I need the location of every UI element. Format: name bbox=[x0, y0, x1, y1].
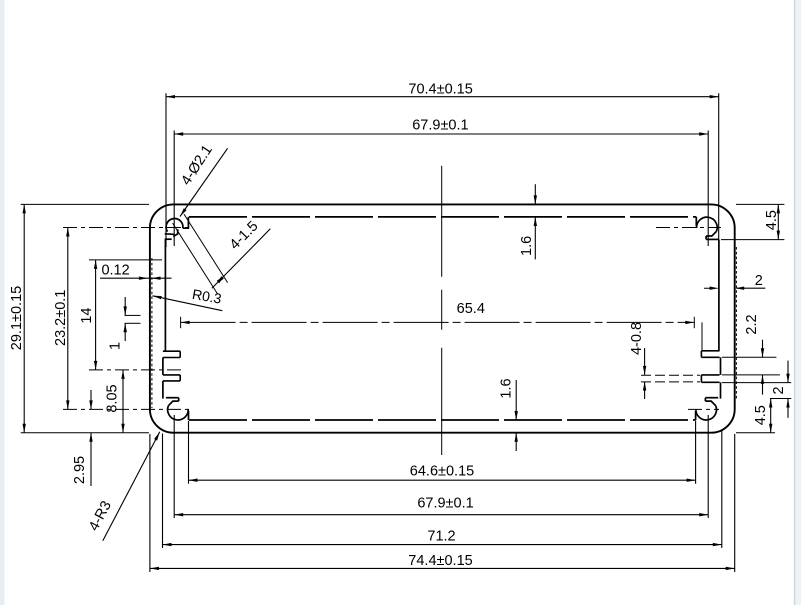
inner top surface line bbox=[189, 216, 696, 218]
dimension 23.2±0.1 (left) bbox=[67, 228, 69, 410]
dimension 4-0.8 (fin thickness) bbox=[644, 348, 646, 375]
inner right wall (upper) bbox=[718, 240, 720, 351]
svg-text:2: 2 bbox=[771, 386, 787, 394]
dimension 2 (right wall) bbox=[704, 287, 718, 289]
dimension 65.4 (inner width) bbox=[181, 321, 695, 323]
leader 4-dia2.1 (screw bore) bbox=[180, 148, 228, 216]
svg-text:23.2±0.1: 23.2±0.1 bbox=[53, 290, 69, 346]
inner left wall (fin region) bbox=[162, 358, 164, 375]
boss centerline bottom-left bbox=[63, 408, 192, 410]
leader R0.3 (serration radius) bbox=[153, 296, 223, 311]
svg-text:71.2: 71.2 bbox=[427, 529, 455, 545]
right page-edge line bbox=[794, 0, 796, 605]
right upper PCB fin bbox=[701, 350, 719, 352]
svg-text:65.4: 65.4 bbox=[457, 301, 485, 317]
dimension 4-1.5 (boss ledge) bbox=[184, 214, 228, 283]
left upper PCB fin bbox=[163, 350, 180, 352]
svg-text:67.9±0.1: 67.9±0.1 bbox=[412, 118, 468, 134]
dimension 67.9±0.1 (top) bbox=[174, 133, 708, 135]
boss centerline top-left bbox=[63, 227, 192, 229]
svg-text:14: 14 bbox=[79, 308, 95, 324]
svg-text:64.6±0.15: 64.6±0.15 bbox=[410, 463, 474, 479]
screw boss bottom-left (rot of top-right) bbox=[166, 398, 189, 421]
svg-text:2.2: 2.2 bbox=[744, 314, 760, 334]
left page-edge stripe bbox=[0, 0, 5, 605]
dimension 14 (left) bbox=[95, 260, 97, 370]
leader 4-R3 (corner radius) bbox=[103, 432, 160, 541]
left wall serration (dotted) bbox=[151, 258, 153, 408]
inner left wall (upper) bbox=[164, 239, 166, 351]
svg-text:8.05: 8.05 bbox=[105, 384, 121, 412]
svg-text:4-0.8: 4-0.8 bbox=[629, 322, 645, 355]
dimension 29.1±0.15 (left) bbox=[23, 204, 25, 432]
dimension 0.12 (serration depth) bbox=[100, 277, 172, 279]
svg-text:1.6: 1.6 bbox=[519, 236, 535, 256]
svg-text:4.5: 4.5 bbox=[753, 405, 769, 425]
inner bottom surface line bbox=[189, 419, 696, 421]
right lower PCB fin bbox=[701, 374, 719, 376]
left lower PCB fin bbox=[163, 374, 180, 376]
dimension 2.95 (left) bbox=[90, 390, 92, 409]
screw boss top-right with step ledge bbox=[696, 217, 719, 240]
dimension 74.4±0.15 (bottom) bbox=[150, 567, 735, 569]
dimension 8.05 (left) bbox=[122, 370, 124, 433]
right wall serration (dotted) bbox=[735, 247, 737, 400]
dimension 4.5 (bottom-right) bbox=[770, 399, 772, 433]
outer profile of extrusion (rounded rectangle) bbox=[150, 204, 735, 432]
svg-text:74.4±0.15: 74.4±0.15 bbox=[408, 553, 472, 569]
dimension 2.2 (right slot gap) bbox=[762, 340, 764, 358]
right gray margin bbox=[795, 0, 801, 605]
svg-text:1.6: 1.6 bbox=[499, 378, 515, 398]
dimension 1.6 (top wall) bbox=[534, 184, 536, 204]
dimension 4.5 (top-right) bbox=[777, 204, 779, 239]
vertical centerline bbox=[441, 166, 443, 455]
svg-text:1: 1 bbox=[108, 342, 124, 350]
svg-text:4.5: 4.5 bbox=[764, 210, 780, 230]
dimension 70.4±0.15 (top) bbox=[166, 96, 719, 98]
svg-text:2: 2 bbox=[755, 273, 763, 289]
screw boss bottom-right (mirror of top-right) bbox=[696, 398, 719, 421]
svg-text:67.9±0.1: 67.9±0.1 bbox=[417, 495, 473, 511]
inner right wall (fin region) bbox=[720, 357, 722, 375]
dimension 1 (left serration pitch) bbox=[124, 297, 126, 315]
dimension 2 (lower right) bbox=[787, 361, 789, 383]
svg-text:0.12: 0.12 bbox=[101, 263, 129, 279]
boss centerline top-right bbox=[656, 227, 721, 229]
boss centerline bottom-right bbox=[688, 408, 719, 410]
screw boss top-left with step ledge bbox=[165, 217, 189, 239]
dimension 64.6±0.15 (bottom) bbox=[189, 479, 696, 481]
dimension 71.2 (bottom) bbox=[163, 544, 722, 546]
svg-text:2.95: 2.95 bbox=[72, 456, 88, 484]
dimension 67.9±0.1 (bottom) bbox=[174, 514, 708, 516]
dimension 1.6 (bottom wall) bbox=[515, 380, 517, 420]
svg-text:70.4±0.15: 70.4±0.15 bbox=[408, 81, 472, 97]
svg-text:29.1±0.15: 29.1±0.15 bbox=[9, 286, 25, 350]
